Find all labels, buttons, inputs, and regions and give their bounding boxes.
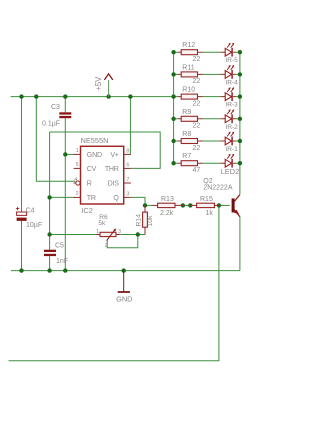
svg-text:10µF: 10µF [26,222,42,229]
svg-text:10k: 10k [147,215,154,227]
capacitor C4 polarized [16,207,42,229]
resistor R10 with IR LED IR-3 row [171,87,242,109]
svg-text:IR-5: IR-5 [225,57,238,64]
svg-text:5: 5 [76,162,79,168]
pin 3 Q stub [124,192,131,198]
junction dot GND pin node [63,152,67,156]
svg-text:C3: C3 [51,104,60,111]
svg-text:C5: C5 [55,243,64,250]
svg-text:NE555N: NE555N [81,136,109,145]
svg-text:IC2: IC2 [81,206,93,215]
wire reset pin riser [36,97,75,182]
svg-text:GND: GND [116,295,132,304]
resistor R15 [190,196,219,217]
wire base node long feedback [9,205,219,360]
svg-text:22: 22 [193,78,201,85]
wire emitter to ground rail [239,217,241,271]
pin 6 THR stub [124,163,131,169]
svg-text:+5V: +5V [94,76,103,91]
svg-text:8: 8 [126,149,129,155]
wire C4 branch vertical [21,97,23,271]
svg-text:LED2: LED2 [221,167,240,176]
wire pot right to R14 [120,234,145,236]
junction dot pot node [47,232,51,236]
pin 8 V+ stub [124,149,131,155]
svg-text:1k: 1k [206,210,214,217]
pin 2 TR stub [74,191,81,197]
pin 5 CV stub [74,162,81,168]
svg-text:THR: THR [105,165,119,173]
svg-text:IR-3: IR-3 [225,102,238,109]
svg-text:V+: V+ [110,151,118,159]
wire THR to TR over-the-top [50,132,161,168]
junction dots top rail [19,94,132,98]
svg-text:R10: R10 [182,87,195,94]
svg-text:CV: CV [87,165,97,173]
svg-text:22: 22 [193,56,201,63]
wire R13 to R15 [183,204,190,206]
resistor R8 with IR LED IR-1 row [171,131,242,153]
svg-text:R11: R11 [182,64,194,71]
svg-text:R7: R7 [182,153,191,160]
wire GND bottom rail [11,270,240,272]
resistor R9 with IR LED IR-2 row [171,109,242,131]
wire collector riser [239,163,241,194]
svg-text:1: 1 [96,229,99,235]
junction dot Q output node [143,203,147,207]
potentiometer R6 [96,214,121,249]
svg-text:2N2222A: 2N2222A [203,184,233,191]
pin 4 R stub with bubble [74,177,80,185]
svg-text:Q: Q [113,194,119,202]
svg-text:4: 4 [74,177,77,183]
svg-text:IR-2: IR-2 [225,124,238,131]
wire LED array left bus [173,52,175,163]
junction dots R13 R15 [181,203,193,207]
wire LED array right bus [239,52,241,163]
svg-text:6: 6 [126,163,129,169]
svg-text:DIS: DIS [108,180,120,188]
svg-text:22: 22 [193,100,201,107]
wire Q output to node [131,197,145,205]
resistor R12 with IR LED IR-5 row [171,42,242,64]
wire node to R13 [145,204,151,206]
capacitor C5 [44,243,68,265]
svg-text:R15: R15 [200,196,213,203]
wire +5V top rail [11,96,174,98]
capacitor C3 [42,104,71,127]
svg-text:R8: R8 [182,131,191,138]
svg-text:IR-1: IR-1 [225,146,238,153]
svg-text:2: 2 [76,191,79,197]
svg-text:1: 1 [76,148,79,154]
junction dot wiper node [136,232,140,236]
svg-text:R14: R14 [135,214,142,227]
svg-text:TR: TR [87,194,96,202]
junction dot base node [217,203,221,207]
op-amp timer IC2 NE555N box [81,146,124,204]
pin 1 GND stub [74,148,81,154]
svg-text:0.1µF: 0.1µF [42,121,60,128]
wire R15 to Q2 base [219,204,230,206]
wire timing node vertical [49,132,51,271]
ground symbol GND [116,271,132,304]
svg-text:GND: GND [87,151,102,159]
wire TR pin connection [50,196,74,198]
resistor R7 with IR LED LED2 row [171,153,242,176]
svg-text:R9: R9 [182,109,191,116]
svg-text:R: R [87,180,92,188]
pin 7 DIS stub [124,177,131,183]
junction dots bottom rail [19,268,126,272]
svg-text:R12: R12 [182,42,195,49]
svg-text:22: 22 [193,123,201,130]
wire pot left to timing node [50,234,96,236]
svg-text:5k: 5k [98,220,106,227]
wire C3 / GND branch vertical [64,97,66,271]
svg-text:1nF: 1nF [56,258,68,265]
svg-text:R13: R13 [161,196,174,203]
+5V supply symbol [94,74,113,97]
junction dot TR node [47,195,51,199]
svg-text:2.2k: 2.2k [160,210,174,217]
resistor R13 [151,196,183,217]
resistor R11 with IR LED IR-4 row [171,64,242,86]
svg-text:7: 7 [126,177,129,183]
wire GND pin connection [65,153,74,155]
svg-text:22: 22 [193,145,201,152]
svg-text:3: 3 [126,192,129,198]
svg-text:3: 3 [118,229,121,235]
wire V+ riser [129,97,131,155]
wire pot wiper loop [107,235,138,248]
IC2 pin names [87,151,120,202]
svg-text:C4: C4 [26,208,35,215]
resistor R14 vertical [135,205,154,234]
svg-text:2: 2 [105,243,108,249]
transistor Q2 2N2222A [203,178,240,217]
svg-text:IR-4: IR-4 [225,79,238,86]
svg-text:47: 47 [193,167,201,174]
